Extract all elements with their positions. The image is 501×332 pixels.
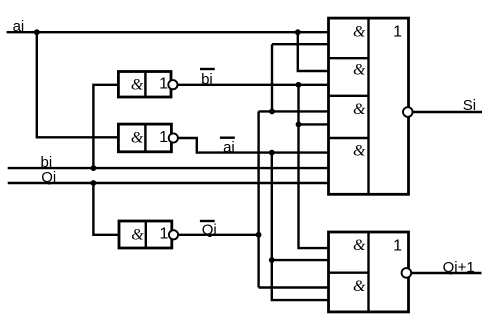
label Qi-bar overline: [200, 220, 215, 222]
inverter DD1 output bubble: [168, 80, 177, 89]
wire ai-bar output jog: [178, 138, 329, 153]
gate DD5 AND-OR-NOT box (Qi+1): [329, 232, 409, 312]
svg-text:1: 1: [393, 23, 402, 40]
node ai-bar junction dot: [269, 150, 275, 156]
node H1/V2 junction: [269, 109, 275, 115]
wire Qi-bar to AND cell1 second input: [272, 43, 329, 45]
wire Qi+1 output: [411, 272, 481, 274]
gate DD4 output bubble: [403, 107, 413, 117]
node ai junction dot left: [34, 29, 40, 35]
svg-text:ai: ai: [13, 18, 25, 35]
wire bi horizontal input line: [8, 167, 329, 169]
svg-text:Qi: Qi: [202, 221, 217, 238]
node Qi-bar junction on bus V1: [256, 232, 262, 238]
label ai-bar overline: [220, 136, 235, 138]
wire V2c ai-bar vertical drop: [272, 153, 329, 301]
svg-text:Qi: Qi: [41, 169, 56, 186]
svg-text:1: 1: [159, 76, 168, 93]
wire bi-bar output line to DD4: [178, 84, 329, 86]
wire Qi-bar output line to bus V1: [178, 234, 259, 236]
svg-text:1: 1: [393, 237, 402, 254]
node bi-bar to cell3 junction: [296, 122, 302, 128]
svg-text:&: &: [353, 23, 366, 40]
gate DD4 AND-OR-NOT box (Si): [329, 18, 409, 194]
svg-text:&: &: [353, 278, 366, 295]
inverter DD2 output bubble: [169, 133, 178, 142]
wire ai-bar to U2 cell1 second input: [272, 259, 329, 261]
wire bi vertical up to inverter DD1: [93, 85, 118, 168]
node bi-bar junction dot: [296, 82, 302, 88]
wire V3a ai vertical drop: [298, 32, 329, 71]
svg-text:&: &: [131, 130, 144, 147]
wire H1 Qi-bar to AND cell3 input: [259, 110, 329, 112]
svg-text:1: 1: [159, 129, 168, 146]
svg-text:ai: ai: [223, 139, 235, 156]
svg-text:Si: Si: [463, 97, 476, 114]
svg-text:&: &: [131, 226, 144, 243]
inverter DD3 (Qi) box: [119, 221, 172, 248]
node Qi junction dot: [91, 180, 97, 186]
gate DD5 output bubble: [402, 268, 412, 278]
wire Si output: [413, 111, 482, 113]
svg-text:Qi+1: Qi+1: [443, 259, 475, 276]
wire ai horizontal input line: [7, 31, 329, 33]
svg-text:1: 1: [159, 226, 168, 243]
label bi-bar overline: [200, 68, 215, 70]
wire Qi horizontal input line: [8, 182, 329, 184]
svg-text:&: &: [353, 101, 366, 118]
inverter DD3 output bubble: [169, 230, 178, 239]
svg-text:&: &: [131, 76, 144, 93]
node ai-bar to U2 cell1 junction: [269, 257, 275, 263]
node ai junction dot right: [295, 29, 301, 35]
svg-text:&: &: [353, 62, 366, 79]
inverter DD1 (bi) box: [118, 72, 171, 98]
wire U2 cell2 first input from V1: [259, 286, 329, 288]
wire V3b bi-bar vertical drop: [299, 85, 329, 248]
wire V2a vertical up (Qi-bar net): [271, 44, 273, 111]
inverter DD2 (ai) box: [118, 124, 171, 152]
wire Qi vertical down to inverter DD3: [93, 183, 119, 235]
svg-text:&: &: [353, 143, 366, 160]
svg-text:&: &: [353, 237, 366, 254]
wire H2 bi-bar to AND cell3 second input: [299, 123, 329, 125]
svg-text:bi: bi: [201, 71, 213, 88]
node bi junction dot: [91, 165, 97, 171]
wire ai vertical drop to inverter DD2: [37, 32, 119, 137]
wire bus V1 vertical (Qi-bar net): [257, 111, 259, 287]
